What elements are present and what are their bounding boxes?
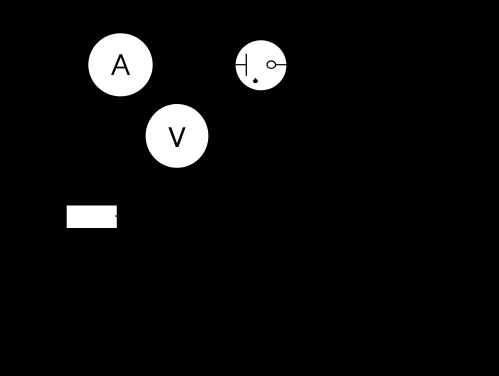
switch S1 hinge contact circle — [267, 61, 276, 68]
resistor R1 — [67, 206, 118, 229]
ammeter A1 — [88, 33, 152, 96]
switch S1 fixed contact bar — [245, 54, 247, 76]
wire S1 left lead — [235, 64, 246, 66]
voltmeter V1 — [146, 104, 209, 168]
switch S1 — [235, 40, 286, 90]
wire S1 right lead — [276, 64, 287, 66]
node R1 right terminal notch — [116, 215, 118, 217]
switch S1 lever tip mark — [253, 78, 258, 83]
